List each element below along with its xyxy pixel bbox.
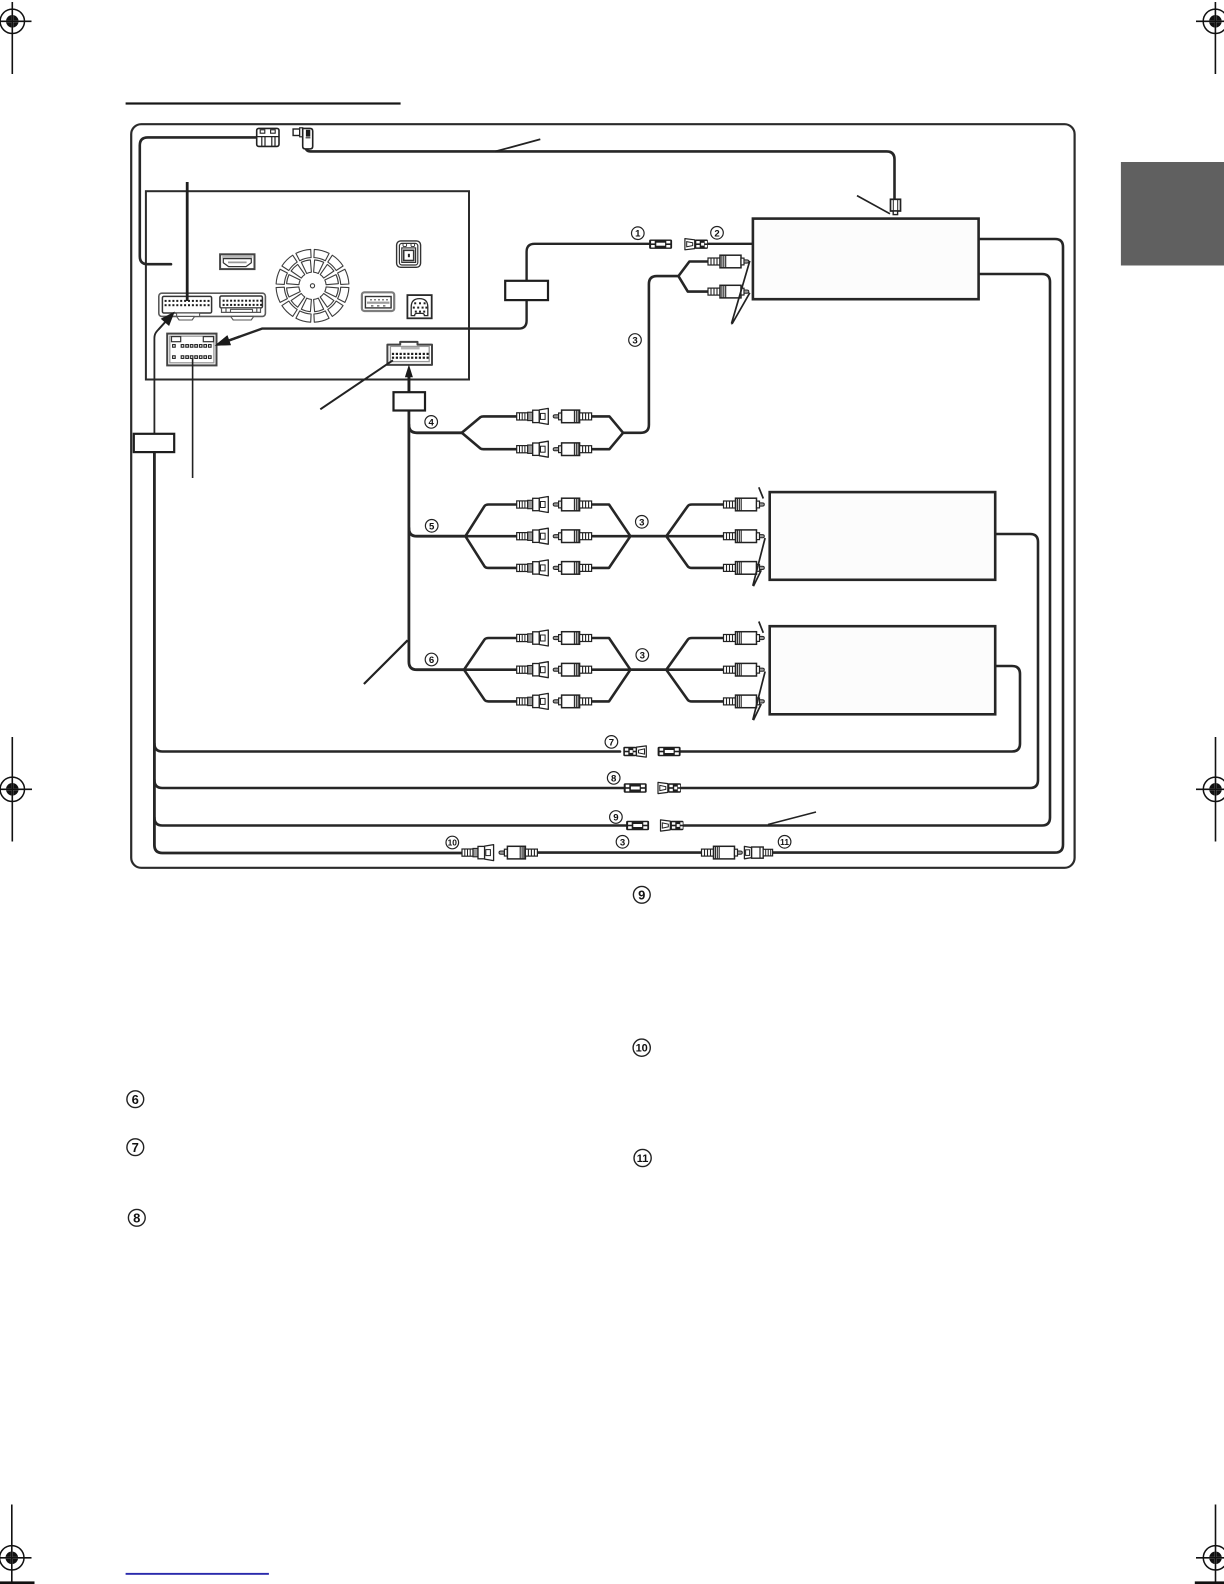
row 10-11 wire right to monitor box bbox=[772, 239, 1063, 853]
connector block A and B enclosure bbox=[159, 293, 266, 316]
left vertical harness lead thin segment bbox=[154, 314, 172, 442]
group 4 merge wires to cable 3 bbox=[592, 416, 623, 432]
leader stroke amp 5 bbox=[759, 487, 764, 498]
leader to aerial wire bbox=[495, 139, 540, 151]
power connector at monitor box top bbox=[891, 199, 901, 214]
amp 5 RCA plugs bbox=[724, 498, 765, 511]
pointer line into connector A from top bbox=[186, 182, 189, 301]
monitor RCA pair wires and vertical cable 3 bbox=[623, 262, 711, 433]
svg-text:2: 2 bbox=[714, 228, 719, 239]
diagonal leader to trunk wire bbox=[364, 640, 408, 684]
leader stroke amp 6 bbox=[759, 622, 764, 633]
female jack 10 bbox=[462, 845, 494, 861]
row 8 wire right to amp 5 bbox=[681, 534, 1038, 788]
bullet connector 2 bbox=[685, 239, 708, 250]
leader fork amp 6 bbox=[753, 672, 765, 721]
wire label box to connector 1 and harness arrow bbox=[229, 244, 650, 341]
label 3 row 10 bbox=[616, 836, 629, 849]
svg-text:8: 8 bbox=[133, 1210, 140, 1225]
registration mark bottom-left bbox=[0, 1505, 32, 1584]
main diagram border bbox=[131, 124, 1074, 868]
label 11 bbox=[778, 836, 791, 849]
group 4 male plug 2 bbox=[553, 443, 591, 456]
row 10-11 wire middle bbox=[537, 851, 703, 854]
row 7 connector pair bbox=[623, 746, 646, 757]
row 8 connector pair bbox=[624, 783, 647, 792]
group 5 merge and split to amp 5 bbox=[592, 505, 724, 537]
mini-DIN connector bbox=[407, 295, 431, 318]
label 7 bbox=[605, 736, 618, 749]
leader to power connector bbox=[857, 196, 890, 214]
group 4 female jack 1 bbox=[517, 408, 549, 424]
svg-text:10: 10 bbox=[636, 1043, 648, 1055]
row 7 wire left bbox=[154, 744, 620, 752]
monitor RCA plug 1 bbox=[708, 255, 749, 268]
group 5 split wires bbox=[465, 505, 516, 537]
leader stroke row 9 bbox=[768, 812, 816, 825]
connector B multipin bbox=[220, 296, 263, 312]
legend number 11 bbox=[634, 1149, 651, 1166]
label 10 bbox=[446, 836, 459, 849]
svg-text:11: 11 bbox=[637, 1153, 649, 1165]
label 5 bbox=[425, 520, 438, 533]
aerial L-plug connector bbox=[293, 128, 313, 149]
label box under connector D bbox=[394, 392, 426, 410]
label box left bbox=[134, 434, 174, 452]
row 9 connector pair bbox=[626, 821, 649, 830]
rear switch square connector bbox=[397, 241, 421, 267]
up arrow into connector D bbox=[405, 365, 413, 394]
svg-text:7: 7 bbox=[609, 737, 614, 748]
amp box 6 bbox=[770, 626, 996, 714]
section title rule bbox=[126, 102, 401, 104]
left vertical harness lead thick segment bbox=[154, 442, 463, 853]
svg-text:3: 3 bbox=[620, 837, 625, 848]
monitor amp box bbox=[753, 219, 979, 300]
row 9 wire left bbox=[154, 818, 626, 826]
monitor RCA plug 2 bbox=[708, 285, 749, 298]
svg-text:9: 9 bbox=[638, 887, 645, 902]
leader fork at monitor box bbox=[732, 261, 750, 324]
row 7 wire right to amp 6 bbox=[681, 666, 1020, 752]
connector D bbox=[387, 342, 432, 365]
group 6 merge and split to amp 6 bbox=[592, 638, 724, 670]
row 8 wire left bbox=[154, 780, 623, 788]
svg-text:9: 9 bbox=[613, 812, 618, 823]
group 6 female jacks bbox=[517, 630, 549, 646]
svg-text:4: 4 bbox=[429, 417, 435, 428]
svg-text:11: 11 bbox=[780, 837, 789, 847]
group 5 female jacks bbox=[517, 497, 549, 513]
registration mark top-left bbox=[0, 2, 32, 74]
svg-text:1: 1 bbox=[635, 229, 641, 240]
wire connector 2 to monitor box bbox=[708, 243, 753, 245]
group 4 split wires bbox=[462, 416, 517, 432]
legend number 8 bbox=[128, 1209, 145, 1226]
label 4 bbox=[425, 416, 438, 429]
svg-text:8: 8 bbox=[611, 773, 617, 784]
crop line bottom-left corner bbox=[0, 1581, 35, 1584]
harness connector C bbox=[167, 334, 216, 366]
registration mark bottom-right bbox=[1196, 1505, 1224, 1584]
arrow into harness connector overlay bbox=[215, 335, 240, 346]
registration mark middle-left bbox=[0, 737, 32, 842]
cooling fan bbox=[276, 249, 349, 322]
HDMI port bbox=[220, 254, 254, 269]
label 9 bbox=[610, 811, 623, 824]
label 6 bbox=[425, 653, 438, 666]
svg-text:7: 7 bbox=[132, 1140, 139, 1155]
legend number 7 bbox=[127, 1139, 144, 1156]
registration mark middle-right bbox=[1196, 737, 1224, 842]
branch to group 5 bbox=[409, 528, 466, 536]
gray edge index tab bbox=[1121, 162, 1224, 266]
mounting feet under connector block bbox=[177, 316, 254, 320]
USB port bbox=[362, 292, 394, 311]
blue footer rule bbox=[126, 1573, 269, 1575]
branch to group 4 bbox=[409, 425, 462, 433]
male plug near 11 bbox=[702, 846, 743, 859]
svg-text:3: 3 bbox=[632, 335, 637, 346]
bullet connector 1 bbox=[649, 240, 672, 249]
svg-text:10: 10 bbox=[448, 838, 458, 848]
legend number 9 bbox=[633, 886, 650, 903]
label 8 bbox=[607, 772, 620, 785]
group 5 male plugs bbox=[553, 498, 591, 511]
wire from antenna adapter to left stub bbox=[140, 137, 258, 264]
svg-text:3: 3 bbox=[640, 650, 645, 661]
group 6 male plugs bbox=[553, 632, 591, 645]
svg-text:3: 3 bbox=[639, 517, 644, 528]
amp 6 RCA plugs bbox=[724, 632, 765, 645]
label 1 bbox=[632, 227, 645, 240]
arrow into connector A overlay bbox=[159, 312, 175, 330]
diagonal pointer to connector D bbox=[320, 360, 393, 409]
label 3 group 6 bbox=[636, 649, 649, 662]
pointer line from connector C down bbox=[192, 358, 194, 478]
trunk wire from connector D down left side of groups bbox=[409, 377, 464, 670]
leader fork amp 5 bbox=[753, 538, 765, 586]
label 3 group 5 bbox=[636, 516, 649, 529]
svg-text:6: 6 bbox=[132, 1092, 139, 1107]
svg-text:6: 6 bbox=[429, 655, 434, 666]
label 3 on cable bbox=[629, 334, 642, 347]
legend number 6 bbox=[127, 1091, 144, 1108]
head unit rear panel box bbox=[146, 191, 469, 379]
antenna adapter connector bbox=[257, 128, 279, 146]
wire from aerial plug to power connector bbox=[306, 147, 895, 199]
arrowhead into harness connector bbox=[215, 335, 231, 346]
male plug near 10 bbox=[499, 846, 537, 859]
group 4 female jack 2 bbox=[517, 441, 549, 457]
crop line bottom-right corner bbox=[1195, 1581, 1224, 1584]
amp box 5 bbox=[770, 492, 996, 580]
registration mark top-right bbox=[1196, 2, 1224, 74]
group 6 split wires bbox=[464, 638, 517, 670]
label 2 bbox=[711, 227, 724, 240]
label box near connector 1 bbox=[505, 281, 548, 300]
female jack 11 bbox=[744, 846, 772, 858]
row 9 wire right to monitor box bbox=[684, 274, 1050, 826]
group 4 male plug 1 bbox=[553, 410, 591, 423]
legend number 10 bbox=[633, 1039, 650, 1056]
connector A multipin bbox=[162, 296, 211, 316]
svg-text:5: 5 bbox=[429, 521, 435, 532]
